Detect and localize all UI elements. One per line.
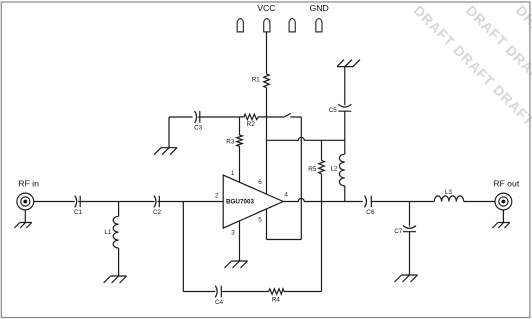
- rail VCC node to C5/L2 with hop over switch line: [267, 137, 345, 140]
- pin P2 VCC: [264, 18, 270, 32]
- wire C3 net: [169, 116, 193, 118]
- svg-text:R2: R2: [247, 121, 256, 128]
- svg-text:RF out: RF out: [493, 179, 520, 189]
- svg-text:C1: C1: [74, 209, 83, 216]
- RF in connector J1: [17, 193, 34, 210]
- wire RF in stem: [24, 210, 26, 223]
- svg-text:R4: R4: [272, 297, 281, 304]
- svg-text:C6: C6: [366, 209, 375, 216]
- svg-text:R5: R5: [308, 166, 317, 173]
- wire C1 to C2 with L1 tap: [78, 201, 154, 203]
- wire C6 to L3: [371, 201, 434, 203]
- wire VCC pin to R1: [266, 32, 268, 74]
- svg-text:2: 2: [215, 193, 219, 200]
- resistor R2: [240, 114, 267, 119]
- capacitor C4: [215, 286, 221, 298]
- svg-text:5: 5: [258, 216, 262, 223]
- ground under C7: [395, 275, 418, 282]
- ground under C3 net: [154, 148, 177, 155]
- pin P3: [289, 18, 295, 32]
- wire R4 to right vertical: [284, 291, 322, 293]
- resistor R5: [319, 161, 325, 174]
- pin P4 GND: [316, 18, 322, 32]
- svg-text:VCC: VCC: [257, 3, 275, 13]
- wire amp pin3 down: [239, 221, 241, 261]
- wire R5 top lead: [321, 140, 323, 160]
- svg-text:4: 4: [284, 192, 288, 199]
- ground under RF out: [492, 223, 510, 229]
- wire C7 top lead: [409, 202, 411, 227]
- ground under pin3: [225, 261, 248, 268]
- watermark DRAFT chain 2: [463, 2, 532, 129]
- wire R5 bottom lead to bottom rail: [321, 174, 323, 292]
- wire ground to C5: [344, 67, 346, 106]
- inductor L1: [113, 216, 118, 248]
- capacitor C2: [154, 196, 159, 208]
- wire R3 top lead: [239, 117, 241, 135]
- wire C4 to R4: [221, 291, 268, 293]
- wire amp output pin4 with hop: [283, 199, 363, 202]
- wire L2 bottom to output: [344, 186, 346, 202]
- resistor R3: [237, 135, 243, 146]
- wire L3 to RF out: [464, 201, 495, 203]
- capacitor C7: [403, 226, 416, 232]
- wire R1 to pin6 node: [266, 88, 268, 195]
- wire C2 to amp pin2: [158, 201, 224, 203]
- wire C3 to R2 node: [198, 116, 240, 118]
- wire L1 to ground: [118, 248, 120, 276]
- svg-text:BGU7003: BGU7003: [226, 198, 254, 205]
- svg-text:C4: C4: [215, 299, 224, 306]
- watermark DRAFT chain 3: [513, 2, 532, 89]
- resistor R1: [264, 74, 270, 88]
- wire C3 left down to ground: [168, 117, 170, 148]
- pin P1: [237, 18, 243, 32]
- RF out connector J2: [495, 193, 512, 210]
- wire L1 top lead: [118, 202, 120, 217]
- wire RF in to C1: [34, 201, 75, 203]
- ground above C5 (flipped): [337, 60, 360, 67]
- svg-text:R3: R3: [226, 138, 235, 145]
- wire R3 to amp pin1: [239, 146, 241, 182]
- svg-text:1: 1: [231, 170, 235, 177]
- resistor R4: [269, 289, 284, 294]
- capacitor C5: [338, 104, 351, 111]
- wire L2 top lead: [344, 140, 346, 154]
- svg-text:L2: L2: [331, 166, 339, 173]
- wire RF out stem: [502, 210, 504, 223]
- svg-text:3: 3: [231, 229, 235, 236]
- capacitor C1: [75, 196, 81, 208]
- wire amp pin5 down: [266, 209, 268, 239]
- svg-text:C7: C7: [394, 228, 403, 235]
- wire pin5 bottom to switch loop: [267, 239, 302, 241]
- ground under L1: [104, 276, 127, 283]
- svg-text:C3: C3: [194, 125, 203, 132]
- svg-text:6: 6: [258, 179, 262, 186]
- inductor L2: [339, 154, 344, 186]
- ground under RF in: [14, 223, 32, 229]
- svg-text:RF in: RF in: [18, 179, 39, 189]
- wire bottom rail left to C4: [183, 291, 215, 293]
- wire C5 to rail: [344, 111, 346, 140]
- svg-text:C5: C5: [329, 107, 338, 114]
- svg-text:C2: C2: [153, 209, 162, 216]
- watermark DRAFT chain 1: [411, 2, 532, 169]
- wire C7 to ground: [409, 232, 411, 275]
- switch S1: [267, 113, 302, 117]
- capacitor C3: [195, 111, 200, 123]
- svg-text:GND: GND: [309, 3, 328, 13]
- svg-text:R1: R1: [252, 76, 261, 83]
- wire feedback left vertical: [182, 202, 184, 292]
- svg-text:L3: L3: [445, 189, 453, 196]
- capacitor C6: [365, 196, 372, 208]
- op-amp U1 triangle: [223, 175, 283, 228]
- inductor L3: [434, 196, 464, 202]
- wire switch corner down: [300, 117, 302, 240]
- svg-text:L1: L1: [104, 229, 112, 236]
